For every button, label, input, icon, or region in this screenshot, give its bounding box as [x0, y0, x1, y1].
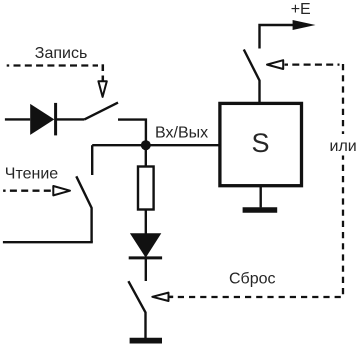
svg-text:Запись: Запись [35, 45, 88, 62]
svg-text:+E: +E [291, 1, 311, 18]
svg-text:S: S [252, 128, 270, 158]
svg-text:Вх/Вых: Вх/Вых [155, 125, 208, 142]
svg-text:Чтение: Чтение [5, 166, 58, 183]
svg-text:Сброс: Сброс [229, 271, 276, 288]
svg-text:или: или [330, 138, 357, 155]
